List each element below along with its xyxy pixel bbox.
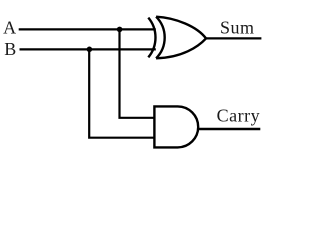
svg-text:B: B: [4, 39, 17, 59]
svg-text:Carry: Carry: [217, 105, 260, 125]
svg-text:A: A: [3, 18, 17, 38]
svg-text:Sum: Sum: [220, 18, 255, 38]
